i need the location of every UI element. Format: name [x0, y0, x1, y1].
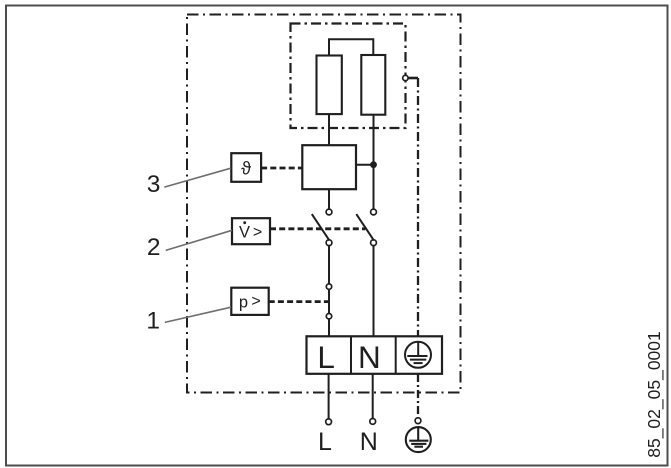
- terminal block: [307, 336, 443, 374]
- heating element E1: [317, 56, 342, 115]
- leader line 1: [165, 307, 231, 322]
- svg-text:N: N: [360, 428, 378, 456]
- PE tap circle on heater enclosure: [403, 75, 408, 80]
- terminal PE symbol: [405, 342, 431, 368]
- svg-text:85_02_05_0001: 85_02_05_0001: [644, 331, 665, 458]
- svg-text:>: >: [251, 293, 260, 310]
- pressure switch contact on L wire: [328, 289, 330, 313]
- switch contact S1 on L wire: [326, 209, 332, 215]
- terminal circle PE: [415, 418, 421, 424]
- switch contact S2 on N wire: [371, 209, 377, 215]
- svg-text:1: 1: [146, 307, 160, 334]
- wire (L branch to terminal block): [328, 319, 330, 336]
- wire (N below terminal block): [372, 374, 374, 419]
- leader line 2: [166, 230, 232, 250]
- svg-text:N: N: [358, 339, 381, 375]
- svg-text:V: V: [239, 224, 250, 242]
- svg-text:2: 2: [147, 234, 161, 261]
- wire (E2 bottom down N branch to switch contact): [373, 115, 375, 210]
- junction (N wire / controller): [370, 161, 377, 168]
- flow sensor box (V-dot >): [232, 218, 270, 244]
- svg-text:p: p: [239, 294, 248, 312]
- PE wire (dash-dot down to terminal): [417, 78, 419, 336]
- wire (PE below terminal block, dash-dot): [417, 374, 419, 418]
- wire (L below terminal block): [328, 374, 330, 419]
- wire (E1 bottom to controller K1 top): [328, 114, 330, 145]
- terminal circle L: [326, 419, 332, 425]
- controller K1 (relay box): [302, 145, 356, 189]
- dashed control line (pressure sensor to contact): [269, 300, 329, 303]
- enclosure (device boundary, dash-dot): [187, 15, 461, 393]
- wire (parallel connection of heating elements): [329, 39, 373, 56]
- wire (N branch to terminal block): [373, 246, 375, 337]
- dashed control line (flow sensor to switch blades): [270, 227, 365, 230]
- PE wire (horizontal from tap): [408, 77, 418, 80]
- PE earth symbol (supply): [406, 427, 431, 452]
- thermostat sensor box (theta): [231, 153, 261, 182]
- terminal circle N: [370, 419, 376, 425]
- dashed control line (thermostat to controller): [261, 167, 302, 170]
- wire (L branch between switch and pressure contact): [328, 246, 330, 284]
- wire (controller bottom to switch contact): [328, 189, 330, 209]
- svg-text:L: L: [318, 428, 332, 456]
- svg-text:ϑ: ϑ: [241, 159, 251, 179]
- svg-text:3: 3: [147, 171, 161, 198]
- heating element E2: [361, 55, 385, 115]
- svg-text:>: >: [253, 224, 262, 241]
- wire (controller right to N wire): [356, 164, 374, 166]
- heater enclosure (inner dash-dot box): [291, 24, 406, 129]
- svg-text:L: L: [317, 339, 335, 375]
- leader line 3: [164, 168, 231, 187]
- pressure sensor box (p >): [231, 288, 268, 315]
